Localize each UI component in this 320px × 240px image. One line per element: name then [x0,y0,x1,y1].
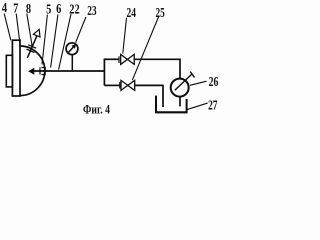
chamber plate (tall rect) [12,40,20,96]
svg-text:23: 23 [87,4,96,19]
gauge needle head [72,45,76,49]
wire: lower branch to valve 25 [104,84,119,86]
svg-text:27: 27 [208,98,217,113]
spray arrow crossbar upper [28,45,36,48]
nozzle tick [39,67,41,74]
wire: upper branch to valve 24 [104,58,119,60]
leader line 6 [51,15,58,68]
gauge needle [69,47,74,52]
leader line 23 [76,17,86,43]
spray arrow open head [33,29,40,37]
valve 24 inlet flange tick [118,56,120,63]
leader line 8 [27,14,33,48]
spray arrow crossbar lower [26,49,34,52]
pump 26 (circle) [171,79,189,97]
tank 27 right wall [186,99,188,113]
wire: lower pipe valve 25 to corner [135,84,163,86]
valve 25 (bowtie) [121,80,135,90]
wire: dip pipe into tank (left) [162,85,164,107]
gauge stem [71,54,73,71]
svg-text:25: 25 [156,6,165,21]
wire: feed pipe to chamber [34,70,105,72]
leader line 26 [190,81,207,85]
chamber dome (semicircle) [20,46,45,96]
svg-text:Фиг. 4: Фиг. 4 [83,102,110,117]
leader line 4 [4,14,11,41]
wire: pump outlet dip pipe [179,96,181,106]
leader line 7 [16,14,20,47]
nozzle flange bracket [42,68,46,75]
wire: upper pipe valve 24 to corner [134,58,180,60]
svg-text:6: 6 [56,2,61,17]
leader line 27 [187,103,208,110]
svg-text:24: 24 [127,6,137,21]
wire: riser at T junction [103,59,105,85]
leader line 24 [123,18,127,54]
svg-text:7: 7 [13,1,18,16]
tank 27 bottom [155,111,187,113]
chamber back plate (small rect) [6,55,12,87]
gauge 23 (circle) [66,43,78,55]
leader line 22 [59,14,71,70]
leader line 25 [132,17,158,80]
leader line 5 [42,15,47,65]
svg-text:26: 26 [209,75,219,90]
flow arrow into chamber (solid) [29,68,34,74]
pump handle crossbar [190,72,194,78]
spray arrow (open, with ticks) shaft [27,36,37,58]
wire: drop into pump [179,59,181,79]
valve 25 inlet flange tick [119,82,121,89]
valve 24 (bowtie) [121,54,135,64]
pump handle [175,74,192,90]
tank 27 left wall [155,96,157,113]
